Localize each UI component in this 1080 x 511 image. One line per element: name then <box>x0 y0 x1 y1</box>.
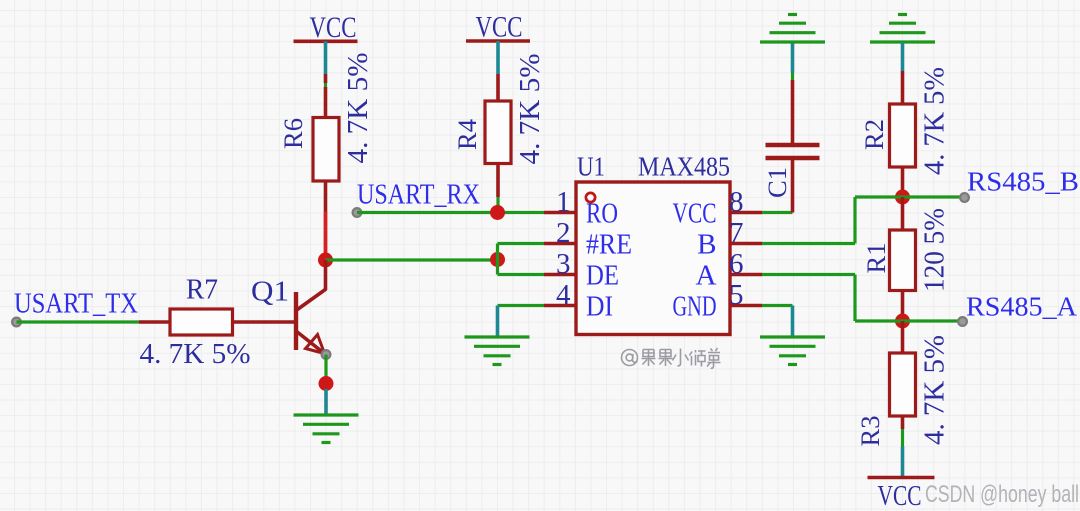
pin 1 stub <box>544 211 576 215</box>
transistor Q1 <box>251 260 326 354</box>
pin RS485_B <box>960 193 969 202</box>
pin 6 stub <box>730 273 762 277</box>
wire emitter down <box>324 355 327 378</box>
wire pin 5 to ground <box>762 306 793 337</box>
pin USART_RX <box>353 208 362 217</box>
svg-text:4. 7K 5%: 4. 7K 5% <box>515 54 546 165</box>
svg-text:R7: R7 <box>186 275 218 306</box>
svg-text:U1: U1 <box>577 152 605 182</box>
node emitter junction <box>319 376 334 391</box>
svg-text:VCC: VCC <box>310 11 357 44</box>
pin 7 stub <box>730 242 762 246</box>
wire node A to R3 <box>901 321 905 353</box>
wire R7 to Q1 base <box>233 320 295 324</box>
svg-text:USART_TX: USART_TX <box>14 289 138 320</box>
svg-text:R2: R2 <box>860 119 889 150</box>
wire pins 2-3 tie <box>498 244 545 275</box>
node RS485_A junction <box>895 314 910 329</box>
pin RS485_A <box>958 317 967 326</box>
svg-text:4. 7K 5%: 4. 7K 5% <box>920 67 951 175</box>
svg-text:6: 6 <box>729 248 744 280</box>
ground (above C1, inverted) <box>760 15 825 43</box>
svg-text:7: 7 <box>729 217 744 249</box>
svg-text:2: 2 <box>556 217 571 249</box>
svg-text:CSDN @honey ball: CSDN @honey ball <box>925 481 1079 508</box>
power symbol VCC (below R3) <box>868 478 935 511</box>
node RX junction <box>490 205 505 220</box>
pin Q1 emitter <box>322 350 331 359</box>
svg-text:4. 7K 5%: 4. 7K 5% <box>343 53 374 164</box>
svg-text:3: 3 <box>556 248 571 280</box>
wire R6 bottom to collector junction <box>324 181 328 256</box>
wire node A to pin 6 <box>762 275 903 322</box>
svg-text:A: A <box>696 260 717 292</box>
svg-text:5: 5 <box>729 279 744 311</box>
svg-text:4. 7K 5%: 4. 7K 5% <box>920 335 951 445</box>
svg-text:1: 1 <box>556 186 571 218</box>
svg-text:R3: R3 <box>856 416 885 447</box>
ground (below pin 5) <box>760 337 825 365</box>
svg-text:C1: C1 <box>763 167 792 198</box>
svg-text:120 5%: 120 5% <box>920 208 951 292</box>
wire node A to RS485_A <box>903 319 963 322</box>
svg-text:8: 8 <box>729 186 744 218</box>
pin 5 stub <box>730 304 762 308</box>
svg-text:GND: GND <box>673 291 717 323</box>
resistor R4 <box>453 101 511 164</box>
svg-text:VCC: VCC <box>673 198 717 230</box>
wire R1 bottom to node A <box>901 291 905 322</box>
wire pin 4 to ground <box>498 306 545 337</box>
wire R4 bottom to RX junction <box>496 164 500 209</box>
wire USART_TX to R7 <box>17 320 140 323</box>
node junction at DE/#RE <box>490 252 505 267</box>
svg-text:RO: RO <box>586 198 618 230</box>
wire node B to pin 7 <box>762 197 903 244</box>
svg-text:R6: R6 <box>279 118 308 149</box>
ground (below DI wire) <box>465 337 530 365</box>
watermark @guoguo gray <box>622 348 721 368</box>
ground (below Q1) <box>294 415 359 443</box>
wire node B to RS485_B <box>903 195 965 198</box>
wire pin 8 to C1 <box>762 211 793 214</box>
pin 2 stub <box>544 242 576 246</box>
wire junction to ground <box>324 389 328 415</box>
svg-text:R1: R1 <box>862 243 891 274</box>
wire C1 top to ground <box>791 42 795 145</box>
power symbol VCC (above R6) <box>294 11 358 74</box>
svg-text:Q1: Q1 <box>251 277 289 308</box>
resistor R1 <box>862 230 916 291</box>
pin USART_TX <box>12 318 21 327</box>
capacitor C1 <box>763 145 820 213</box>
resistor R7 <box>170 275 233 336</box>
wire VCC to R6 <box>324 74 327 118</box>
svg-text:MAX485: MAX485 <box>638 152 730 182</box>
resistor R2 <box>860 104 916 167</box>
svg-text:RS485_B: RS485_B <box>967 167 1079 197</box>
wire ground to R2 <box>901 42 905 104</box>
wire R7 left stub <box>139 320 170 324</box>
svg-text:DE: DE <box>586 260 619 292</box>
resistor R6 <box>279 118 339 182</box>
svg-text:USART_RX: USART_RX <box>357 180 480 211</box>
wire VCC to R4 <box>496 74 500 101</box>
svg-text:VCC: VCC <box>476 11 523 44</box>
wire R2 bottom to node B <box>901 167 905 197</box>
wire junction to IC pins 2/3 <box>326 258 498 261</box>
svg-text:VCC: VCC <box>878 480 922 511</box>
svg-text:4. 7K 5%: 4. 7K 5% <box>140 339 251 370</box>
node RS485_B junction <box>895 190 910 205</box>
svg-text:RS485_A: RS485_A <box>966 292 1078 322</box>
wire node B to R1 <box>901 197 905 230</box>
pin 4 stub <box>544 304 576 308</box>
power symbol VCC (above R4) <box>466 11 530 75</box>
svg-text:DI: DI <box>586 291 613 323</box>
wire R3 to VCC <box>901 416 905 477</box>
resistor R3 <box>856 353 916 447</box>
ground (above R2, inverted) <box>870 15 935 43</box>
pin 8 stub <box>730 211 762 215</box>
wire USART_RX to pin 1 <box>357 211 544 214</box>
IC U1 MAX485 <box>576 152 730 335</box>
svg-text:B: B <box>697 229 716 261</box>
svg-text:4: 4 <box>556 279 571 311</box>
node collector junction <box>318 253 333 268</box>
pin 3 stub <box>544 273 576 277</box>
svg-text:R4: R4 <box>453 119 482 150</box>
svg-text:#RE: #RE <box>586 229 632 261</box>
